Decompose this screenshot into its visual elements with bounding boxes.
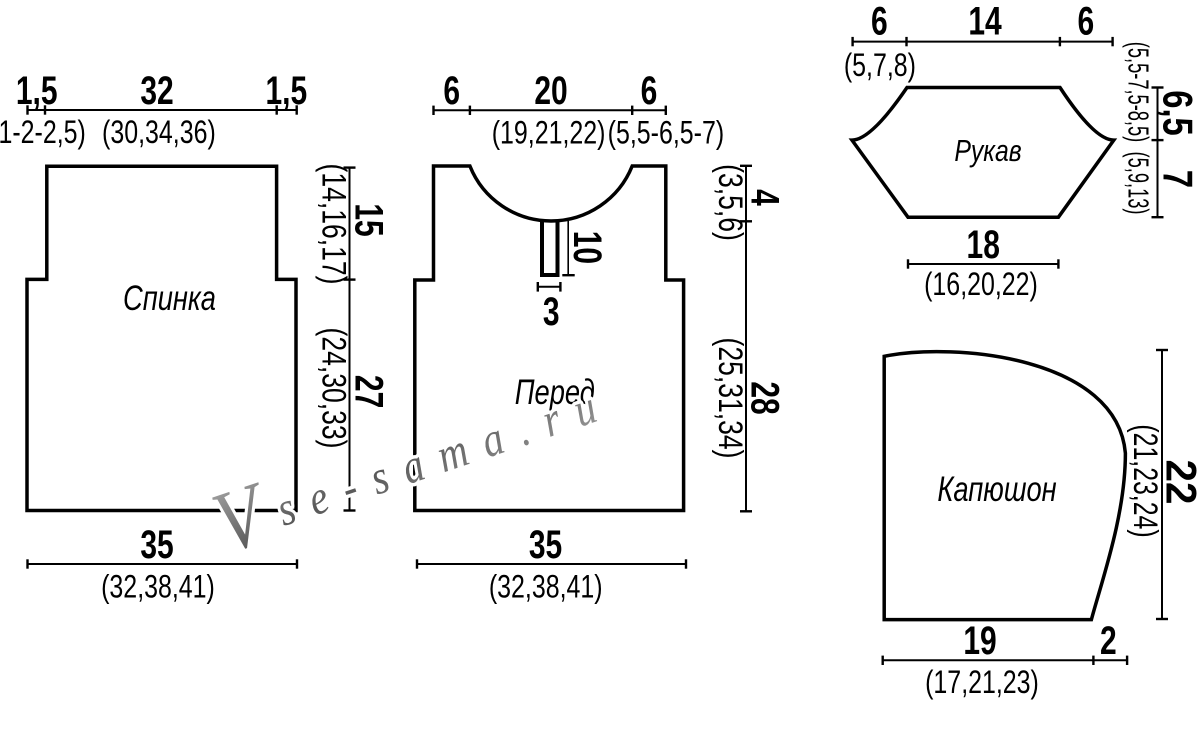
svg-text:Капюшон: Капюшон: [937, 470, 1056, 509]
svg-text:(30,34,36): (30,34,36): [102, 115, 216, 151]
svg-text:(16,20,22): (16,20,22): [924, 267, 1038, 303]
sleeve right dimension line: [1152, 88, 1164, 218]
svg-text:(17,21,23): (17,21,23): [925, 665, 1039, 701]
svg-text:(5,5-6,5-7): (5,5-6,5-7): [608, 116, 724, 152]
svg-text:(32,38,41): (32,38,41): [101, 570, 215, 606]
hood right dimension line: [1156, 350, 1168, 619]
svg-text:Спинка: Спинка: [123, 279, 216, 318]
svg-text:32: 32: [140, 69, 173, 113]
svg-text:19: 19: [963, 619, 996, 663]
svg-text:6: 6: [1078, 0, 1095, 44]
slit depth dimension line: [562, 221, 574, 275]
sleeve top dimension line: [853, 37, 1113, 46]
svg-text:1,5: 1,5: [16, 69, 58, 113]
hood bottom dimension line: [883, 656, 1127, 665]
svg-text:20: 20: [534, 69, 567, 113]
svg-text:2: 2: [1100, 619, 1117, 663]
svg-text:22: 22: [1157, 460, 1200, 505]
svg-text:6,5: 6,5: [1155, 90, 1200, 136]
hood outline (Капюшон): [884, 352, 1125, 620]
front right dimension line: [740, 166, 752, 512]
front piece outline (Перед): [415, 166, 684, 511]
svg-text:(5,9,13): (5,9,13): [1121, 152, 1153, 215]
watermark Vse-sama.ru: [202, 348, 625, 572]
back bottom dimension line: [28, 559, 298, 568]
svg-text:10: 10: [565, 231, 609, 264]
svg-text:15: 15: [346, 203, 390, 236]
slit width dimension line: [538, 282, 561, 292]
svg-text:(19,21,22): (19,21,22): [492, 116, 606, 152]
svg-text:(32,38,41): (32,38,41): [489, 570, 603, 606]
svg-text:6: 6: [871, 0, 888, 44]
back right dimension line: [344, 168, 356, 511]
svg-text:(5,7,8): (5,7,8): [844, 48, 916, 84]
back piece outline (Спинка): [27, 166, 296, 510]
back top dimension line: [28, 105, 297, 114]
svg-text:1,5: 1,5: [265, 69, 307, 113]
svg-text:7: 7: [1155, 170, 1200, 188]
svg-text:(5,5-7,5-8,5): (5,5-7,5-8,5): [1121, 42, 1153, 142]
svg-text:35: 35: [140, 523, 173, 567]
sleeve bottom dimension line: [908, 259, 1058, 268]
svg-text:6: 6: [443, 69, 460, 113]
svg-text:Рукав: Рукав: [954, 133, 1021, 167]
front top dimension line: [434, 106, 666, 115]
svg-text:27: 27: [346, 375, 390, 408]
front neck slit: [542, 220, 558, 276]
svg-text:14: 14: [968, 0, 1002, 44]
front bottom dimension line: [417, 559, 686, 568]
svg-text:3: 3: [543, 290, 560, 334]
svg-text:28: 28: [742, 381, 786, 414]
svg-text:4: 4: [742, 189, 786, 206]
svg-text:35: 35: [529, 523, 562, 567]
sleeve outline (Рукав): [852, 88, 1114, 218]
svg-text:18: 18: [967, 223, 1000, 267]
svg-text:6: 6: [641, 69, 658, 113]
svg-text:(1-2-2,5): (1-2-2,5): [0, 115, 86, 151]
